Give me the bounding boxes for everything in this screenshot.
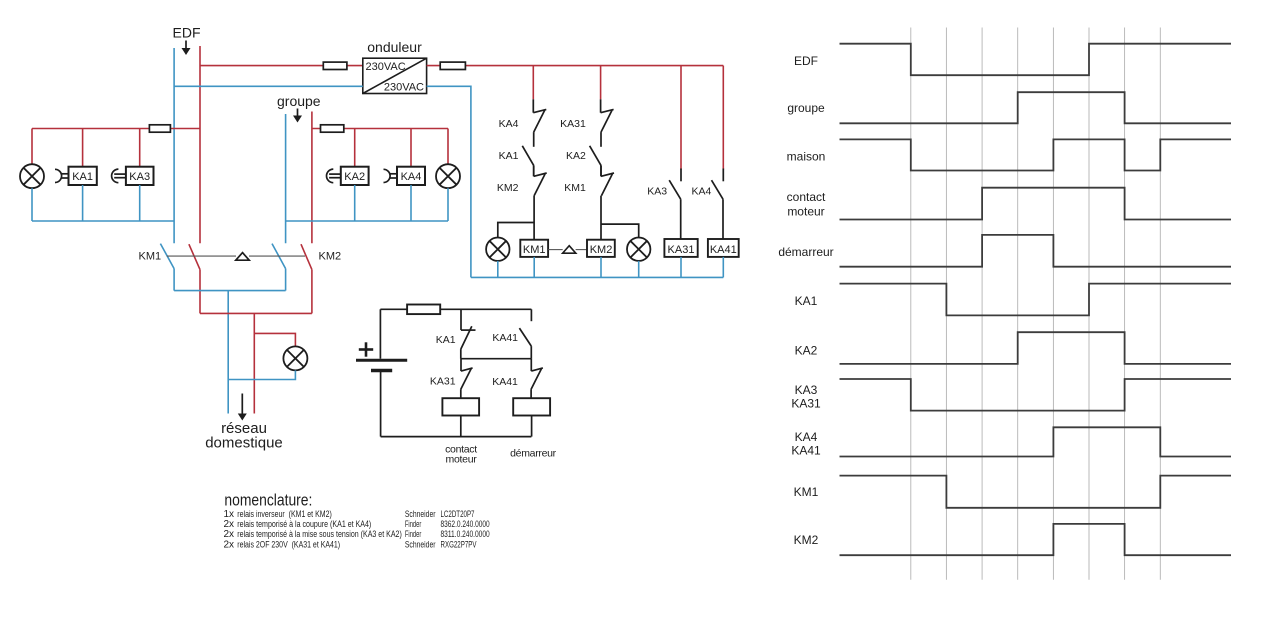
timing signal demarreur [778,235,1231,267]
svg-text:groupe: groupe [787,101,825,115]
svg-text:EDF: EDF [173,25,201,41]
svg-text:démarreur: démarreur [778,245,833,259]
svg-text:KA31: KA31 [560,118,586,130]
contact KA3 (NO) [669,180,681,199]
svg-text:Schneider: Schneider [405,539,436,549]
svg-text:onduleur: onduleur [367,39,422,55]
fuse F1 [323,62,347,69]
svg-text:KM2: KM2 [497,182,519,194]
svg-text:démarreur: démarreur [510,447,557,459]
svg-text:KA41: KA41 [492,376,518,388]
svg-text:KA31: KA31 [668,244,695,256]
timing signal contact moteur [787,188,1231,220]
wire blue output down [227,291,229,414]
wire red from onduleur to ladder [427,65,724,67]
wire blue EDF to onduleur [174,85,363,87]
svg-text:KA31: KA31 [791,396,821,410]
wire blue from lamp H1 [31,188,33,221]
wire red right branch [312,128,448,130]
contact KA31 (NC) [460,359,462,371]
wire blue below coil KA31 [680,257,682,278]
timing signal KA3 [791,379,1231,411]
svg-text:KA4: KA4 [499,118,519,130]
wire red drop to coil KA4 [410,129,412,167]
interlock line [548,249,563,251]
contactor KM1 pole (phase) [189,244,200,269]
svg-text:KA4: KA4 [401,171,422,183]
coil KA41 [708,239,739,257]
svg-text:KA3: KA3 [647,185,667,197]
wire segment [533,165,535,176]
wire groupe phase (red) vertical [311,112,313,244]
wire blue output joining [174,290,286,292]
lamp H3 [283,346,307,370]
coil demarreur [513,398,550,415]
svg-text:RXG22P7PV: RXG22P7PV [441,539,477,549]
timing signal KM2 [794,524,1231,555]
svg-text:Finder: Finder [405,529,421,539]
svg-text:230VAC: 230VAC [366,61,406,73]
node reseau domestique [205,394,283,452]
svg-text:KM2: KM2 [319,251,342,263]
contact KA4 (NO) [712,180,724,199]
wire blue from coil KA1 [82,185,84,221]
contact KM1 (NC interlock) [600,165,602,176]
svg-text:8311.0.240.0000: 8311.0.240.0000 [441,529,490,539]
relay coil KA2 (on-delay) [327,167,369,185]
wire red drop to contact KA3 [680,66,682,170]
contact KA1 (NO) [522,146,533,166]
onduleur U1 [363,39,427,94]
svg-text:LC2DT20P7: LC2DT20P7 [441,509,475,519]
wire battery top [380,308,531,310]
svg-text:KA41: KA41 [710,244,737,256]
wire red drop to coil KA1 [82,129,84,167]
wire red drop to coil KA3 [139,129,141,167]
node EDF label [173,25,201,56]
timing signal maison [787,139,1231,170]
fuse F5 [407,305,440,315]
contactor KM1 pole (neutral) [160,244,174,269]
wire blue below coil KA41 [722,257,724,278]
contact KA4 (NC) [532,99,534,112]
svg-text:2x: 2x [224,539,235,550]
wire blue from coil KA2 [354,185,356,221]
svg-text:relais inverseur (KM1 et KM2): relais inverseur (KM1 et KM2) [237,509,331,519]
svg-text:moteur: moteur [446,454,478,466]
nomenclature row 1 [224,509,475,520]
wire link to lamp H4 [498,223,534,238]
svg-text:KA4: KA4 [795,430,818,444]
wire blue from coil KA3 [139,185,141,221]
wire battery left [379,309,381,358]
svg-text:KA1: KA1 [795,294,818,308]
wire red drop to coil KA2 [354,129,356,167]
contact KM2 (NC interlock) [533,165,535,176]
timing signal groupe [787,92,1231,123]
wire below contact-moteur coil [460,416,462,437]
wire blue from coil KA4 [410,185,412,221]
contact KA41 (NC) bottom [530,359,532,371]
timing signal KA1 [795,284,1231,316]
svg-text:KM1: KM1 [564,182,586,194]
svg-text:KA3: KA3 [795,383,818,397]
fuse F2 [440,62,465,69]
wire right leg top [530,309,532,321]
svg-text:KM1: KM1 [523,244,546,256]
wire below demarreur coil [531,416,533,437]
interlock triangle [236,253,249,261]
wire red drop to contact chain [600,66,602,100]
svg-text:KA2: KA2 [566,150,586,162]
wire link to lamp H5 [601,224,639,237]
timing signal KA4 [791,427,1231,457]
wire blue drops from lamps and coils [497,261,499,278]
svg-text:KA3: KA3 [129,171,150,183]
svg-text:groupe: groupe [277,93,321,109]
node groupe label [277,93,321,123]
svg-text:KA1: KA1 [436,334,456,346]
wire segment [600,132,602,147]
battery G1 plates [356,359,407,362]
mechanical interlock link [167,255,236,257]
svg-text:Finder: Finder [405,519,421,529]
svg-text:KA1: KA1 [72,171,93,183]
wire segment [600,165,602,176]
wire blue ladder bottom rail [471,276,723,278]
fuse F4 [321,125,344,132]
wire red drop to contact chain [532,66,534,100]
wire segment [533,132,535,147]
wire battery minus down [380,371,382,437]
svg-text:KM2: KM2 [590,244,613,256]
wire EDF neutral (blue) vertical [173,48,175,243]
svg-text:nomenclature:: nomenclature: [224,492,312,510]
svg-text:EDF: EDF [794,54,818,68]
battery G1 plus sign [359,348,373,351]
svg-text:KM1: KM1 [139,251,162,263]
svg-text:maison: maison [787,150,826,164]
contact KA1 (NC) in starter circuit [460,309,462,330]
svg-text:KA2: KA2 [795,343,818,357]
svg-text:8362.0.240.0000: 8362.0.240.0000 [441,519,490,529]
wire EDF phase (red) vertical [199,46,201,243]
wire from chain 1 to coil KM1 [533,196,535,240]
svg-text:contact: contact [787,190,826,204]
lamp H4 [486,238,509,261]
wire red drop to lamp H1 [31,129,33,165]
svg-text:domestique: domestique [205,434,283,451]
contact KA31 (NC) [600,99,602,112]
wire link between legs [461,358,532,360]
lamp H1 [20,164,44,188]
coil KM1 [520,240,548,257]
timing signal KA2 [795,332,1231,364]
wire blue from lamp H2 [447,188,449,221]
contactor KM2 pole (neutral) [272,244,286,269]
wire red output down [253,313,255,413]
wire red drop to contact KA4 [722,66,724,170]
wire blue from onduleur down to ladder rail [427,86,471,277]
fuse F3 [149,125,170,132]
timing signal KM1 [794,476,1231,508]
wire groupe neutral (blue) vertical [285,114,287,243]
svg-text:relais temporisé à la mise sou: relais temporisé à la mise sous tension … [237,529,402,539]
timing signal EDF [794,44,1231,75]
svg-text:KA4: KA4 [692,185,712,197]
svg-text:KA1: KA1 [499,150,519,162]
lamp H2 [436,164,460,188]
coil KA31 [664,239,697,257]
wire battery bottom [381,436,532,438]
svg-text:relais 2OF 230V (KA31 et KA41: relais 2OF 230V (KA31 et KA41) [237,539,340,549]
svg-text:moteur: moteur [787,204,824,218]
svg-text:KA41: KA41 [492,332,518,344]
contact KA41 (NO) top [519,328,531,346]
interlock triangle [563,246,576,254]
wire blue right branch bottom [286,220,448,222]
contactor KM2 pole (phase) [301,244,312,269]
svg-text:KM1: KM1 [794,485,819,499]
coil KM2 [587,240,615,257]
wire red output joining [200,312,312,314]
contact KA2 (NO) [590,146,601,166]
nomenclature row 4 [224,539,477,550]
relay coil KA1 (off-delay) [55,167,97,185]
wire blue from lamp H3 [228,370,295,379]
relay coil KA4 (off-delay) [384,167,426,185]
svg-text:KA41: KA41 [791,443,821,457]
svg-text:KM2: KM2 [794,533,819,547]
coil contact-moteur [442,398,479,415]
wire red feed to onduleur [200,65,363,67]
svg-text:KA31: KA31 [430,376,456,388]
wire red drop to lamp H2 [447,129,449,165]
wire from chain 2 to coil KM2 [600,196,602,240]
nomenclature row 3 [224,529,490,540]
nomenclature row 2 [224,519,490,530]
wire red branch to lamp H3 [254,333,295,346]
wire red left branch [32,128,200,130]
svg-text:Schneider: Schneider [405,509,436,519]
relay coil KA3 (on-delay) [112,167,154,185]
svg-text:relais temporisé à la coupure: relais temporisé à la coupure (KA1 et KA… [237,519,371,529]
svg-text:KA2: KA2 [344,171,365,183]
timing grid [911,28,1161,580]
lamp H5 [627,238,650,261]
wire blue left branch bottom [32,220,174,222]
svg-text:230VAC: 230VAC [384,82,424,94]
